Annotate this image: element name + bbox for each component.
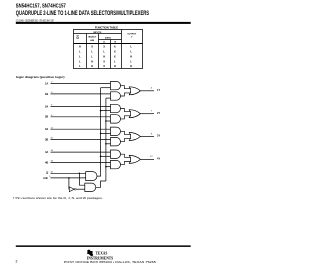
svg-text:4B: 4B: [45, 160, 48, 164]
svg-text:H: H: [103, 54, 105, 58]
svg-text:L: L: [79, 54, 81, 58]
svg-text:1B: 1B: [45, 92, 48, 96]
svg-text:L: L: [130, 59, 132, 63]
svg-text:3Y: 3Y: [157, 134, 160, 138]
svg-text:SELECT: SELECT: [88, 36, 97, 38]
svg-text:L: L: [79, 49, 81, 53]
svg-text:L: L: [79, 59, 81, 63]
svg-text:H: H: [130, 64, 132, 68]
svg-text:2Y: 2Y: [157, 111, 160, 115]
svg-text:† Pin numbers shown are for th: † Pin numbers shown are for the D, J, N,…: [13, 196, 104, 200]
svg-text:INPUTS: INPUTS: [93, 32, 102, 34]
svg-text:2: 2: [16, 260, 18, 264]
svg-text:7: 7: [151, 111, 153, 113]
svg-text:X: X: [91, 44, 93, 48]
svg-text:L: L: [114, 59, 116, 63]
svg-text:TEXAS: TEXAS: [96, 251, 108, 256]
svg-text:3A: 3A: [45, 127, 48, 131]
svg-text:H: H: [79, 44, 81, 48]
svg-text:3B: 3B: [45, 138, 48, 142]
svg-text:H: H: [114, 64, 116, 68]
svg-text:G: G: [76, 36, 79, 40]
svg-text:12: 12: [150, 156, 153, 158]
svg-text:H: H: [91, 64, 93, 68]
svg-text:L: L: [91, 54, 93, 58]
svg-text:9: 9: [151, 133, 153, 135]
svg-text:H: H: [130, 54, 132, 58]
svg-text:L: L: [91, 49, 93, 53]
svg-text:POST OFFICE BOX 655303 • DALLA: POST OFFICE BOX 655303 • DALLAS, TEXAS 7…: [64, 260, 157, 264]
svg-text:4: 4: [151, 88, 153, 90]
svg-text:A/B: A/B: [90, 39, 94, 42]
svg-text:FUNCTION TABLE: FUNCTION TABLE: [95, 25, 118, 29]
svg-text:L: L: [130, 49, 132, 53]
svg-text:X: X: [114, 54, 116, 58]
svg-text:Y: Y: [131, 37, 133, 39]
svg-text:H: H: [91, 59, 93, 63]
svg-text:2B: 2B: [45, 115, 48, 119]
svg-text:L: L: [103, 49, 105, 53]
svg-text:G: G: [46, 171, 48, 175]
svg-text:2A: 2A: [45, 104, 48, 108]
svg-text:1Y: 1Y: [157, 88, 160, 92]
svg-text:4Y: 4Y: [157, 157, 160, 161]
svg-text:L: L: [130, 44, 132, 48]
svg-text:logic diagram (positive logic): logic diagram (positive logic): [16, 75, 65, 79]
svg-text:INSTRUMENTS: INSTRUMENTS: [87, 256, 113, 260]
svg-text:X: X: [114, 44, 116, 48]
svg-text:QUADRUPLE 2-LINE TO 1-LINE DAT: QUADRUPLE 2-LINE TO 1-LINE DATA SELECTOR…: [16, 10, 149, 17]
svg-text:1A: 1A: [45, 81, 48, 85]
svg-text:A: A: [103, 40, 105, 43]
svg-text:OUTPUT: OUTPUT: [127, 34, 137, 36]
svg-text:L: L: [79, 64, 81, 68]
svg-text:DATA: DATA: [105, 36, 111, 39]
svg-text:4A: 4A: [45, 150, 48, 154]
svg-text:X: X: [114, 49, 116, 53]
svg-text:SN54HC157, SN74HC157: SN54HC157, SN74HC157: [16, 4, 66, 10]
svg-text:X: X: [103, 59, 105, 63]
svg-text:A/B: A/B: [43, 176, 48, 180]
svg-text:X: X: [103, 44, 105, 48]
svg-text:X: X: [103, 64, 105, 68]
